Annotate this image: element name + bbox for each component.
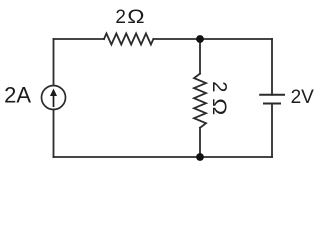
svg-text:2: 2 xyxy=(208,81,230,92)
svg-text:2A: 2A xyxy=(4,82,31,107)
svg-text:2: 2 xyxy=(115,7,126,28)
svg-text:Ω: Ω xyxy=(127,7,144,28)
svg-text:Ω: Ω xyxy=(209,98,230,115)
svg-text:2V: 2V xyxy=(291,87,315,108)
